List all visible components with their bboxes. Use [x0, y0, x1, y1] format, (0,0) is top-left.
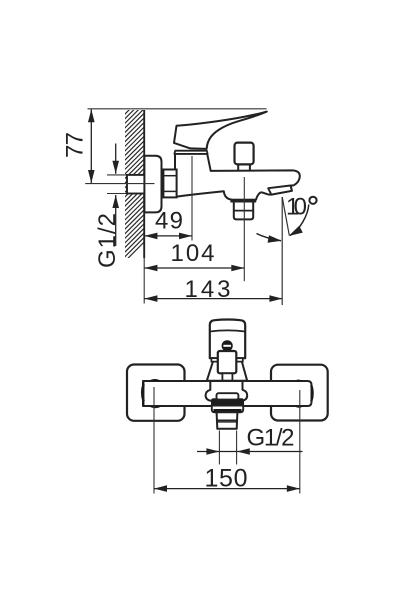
faucet body and spout silhouette — [175, 154, 300, 200]
dim 77 vertical line with arrows — [90, 109, 92, 183]
shower outlet collar — [231, 199, 256, 202]
dim 143 — [144, 298, 282, 300]
extension line wall — [143, 258, 145, 304]
diverter knob (front) — [218, 351, 237, 373]
screw (front) — [222, 340, 233, 351]
pipe extension thin lines — [107, 174, 130, 176]
angle vertex vertical line — [281, 197, 283, 305]
dim 49 — [144, 235, 192, 237]
spout dark underside — [211, 398, 244, 405]
knob side ears — [211, 358, 217, 361]
dim 150 — [154, 488, 300, 490]
knob stem (front) — [222, 373, 232, 380]
angle arc large with arrowhead — [290, 205, 309, 236]
extension line cartridge center — [191, 156, 193, 241]
svg-text:150: 150 — [205, 465, 248, 493]
wall hatch — [120, 89, 150, 266]
right union side arc — [311, 385, 312, 401]
pipe shank lines — [162, 176, 165, 178]
pipe center line — [85, 183, 154, 185]
extension line outlet center — [243, 177, 245, 281]
handle lever — [174, 112, 267, 149]
wall face line — [143, 110, 145, 258]
extension line right union — [299, 390, 301, 494]
handle face line — [210, 330, 245, 331]
hex nut — [163, 170, 176, 198]
spout lower lip — [212, 406, 243, 413]
angle small curve with arrowhead — [257, 234, 282, 241]
left union bottom arc — [148, 406, 162, 408]
svg-text:G1/2: G1/2 — [94, 213, 121, 268]
extension lines tail G1/2 — [218, 431, 220, 465]
svg-text:10: 10 — [286, 194, 307, 221]
svg-text:49: 49 — [155, 207, 183, 234]
tail (front) — [217, 412, 238, 429]
extension line left union — [153, 387, 155, 494]
svg-text:G1/2: G1/2 — [247, 424, 295, 451]
handle (front) — [210, 320, 245, 359]
bar left end cap — [142, 382, 144, 406]
flare base — [207, 361, 247, 380]
body bar — [143, 381, 311, 406]
diverter stem — [238, 164, 250, 171]
left union top arc — [148, 379, 162, 381]
svg-text:143: 143 — [185, 276, 231, 303]
shower outlet threaded tail — [234, 202, 253, 220]
left wall plate — [127, 365, 185, 421]
dim G1/2 (side) lower arrow — [115, 195, 117, 246]
dim G1/2 (side) upper arrow — [115, 144, 117, 174]
diverter knob (side) — [235, 143, 254, 165]
svg-text:77: 77 — [62, 132, 89, 158]
dim G1/2 (front) — [197, 451, 303, 453]
pipe through wall — [127, 175, 145, 194]
aerator end face (tilted 10deg) — [268, 186, 292, 195]
right union bottom arc — [294, 406, 304, 408]
angle tilted line (10deg) — [282, 197, 289, 235]
dim 104 — [144, 267, 244, 269]
right union top arc — [294, 379, 304, 381]
svg-text:104: 104 — [171, 240, 215, 267]
aerator face (front) — [217, 393, 239, 399]
left union side arc — [142, 384, 143, 401]
right wall plate — [271, 365, 328, 421]
spout front outline — [206, 381, 248, 401]
handle collar — [174, 151, 207, 154]
top reference line — [88, 108, 267, 110]
escutcheon plate (side) — [144, 156, 161, 213]
